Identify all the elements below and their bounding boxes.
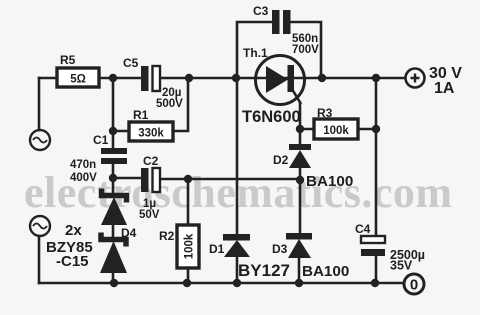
node: rail / zener junction [110,279,118,287]
wire: D2 anode short lead [299,168,302,180]
node: rail / R2 junction [183,279,191,287]
wire: D3 anode lead [298,258,301,283]
svg-text:35V: 35V [390,259,413,273]
wire: link between zener diodes [112,225,115,236]
zener diode (second of 2x BZY85) [46,222,127,273]
svg-text:Th.1: Th.1 [243,46,268,60]
svg-text:R2: R2 [159,229,175,243]
svg-text:C2: C2 [143,154,159,168]
wire: R5 left lead [39,77,57,80]
wire: R2 bottom lead [187,268,190,283]
node: rail / D3 junction [295,279,303,287]
wire: C1 to C2 node [112,163,115,192]
capacitor C3 [253,4,319,56]
wire: C2 left lead [113,177,141,180]
svg-text:D3: D3 [272,242,288,256]
wire: left vertical from main line to C1 [112,78,115,148]
wire: AC input top lead [38,78,41,130]
resistor R2 [159,225,199,268]
wire: C4 bottom lead [375,256,378,283]
svg-text:R3: R3 [317,106,333,120]
diode D3 [272,233,349,280]
node: R1 left junction [109,127,117,135]
svg-text:BA100: BA100 [302,263,349,280]
svg-text:R1: R1 [133,108,149,122]
thyristor Th.1 [242,46,305,126]
svg-text:400V: 400V [70,172,97,184]
svg-text:5Ω: 5Ω [70,74,86,86]
wire: C2 to D2 anode node [162,178,300,181]
capacitor C1 [70,133,127,184]
node: C5/R1 junction [185,74,193,82]
node: rail / D1 junction [233,279,241,287]
terminal +30V [406,65,463,97]
node: C1/C2/zener junction [109,174,117,182]
wire: C5 to thyristor anode and cathode to + terminal [160,77,405,80]
svg-text:BA100: BA100 [306,173,353,190]
svg-text:0: 0 [410,277,418,294]
zener diode D4 [101,189,137,241]
wire: C3 loop right side [289,22,321,78]
svg-text:330k: 330k [138,128,164,140]
resistor R3 [314,106,358,139]
wire: R5 to C5 [99,77,141,80]
svg-text:C1: C1 [93,133,109,147]
wire: R1 left lead [113,130,129,133]
AC source G2 [30,216,50,236]
svg-text:C3: C3 [253,4,269,18]
svg-text:1A: 1A [434,80,455,97]
node: D2/D3/C2 junction [296,176,304,184]
node: R2 top junction [184,175,192,183]
wire: right vertical rail to C4 [375,78,378,236]
AC source G1 [30,130,50,150]
wire: C3 loop left side [237,22,272,78]
svg-text:50V: 50V [139,209,160,221]
resistor R5 [57,53,99,87]
capacitor C4 [355,222,425,273]
node: output junction [372,74,380,82]
svg-text:BY127: BY127 [238,261,290,280]
wire: R2 top lead [187,179,190,225]
diode D1 [209,234,290,280]
svg-text:2x: 2x [65,222,82,239]
svg-text:100k: 100k [183,233,195,259]
node: gate/R3/D2 junction [296,125,304,133]
svg-text:C4: C4 [355,222,371,236]
wire: R3 right lead [358,128,376,131]
diode D2 [273,144,353,190]
svg-text:700V: 700V [292,44,319,56]
wire: AC source 2 bottom lead [38,236,41,283]
svg-text:D1: D1 [209,242,225,256]
svg-text:D2: D2 [273,153,289,167]
terminal 0 [404,274,424,294]
node: thyristor cathode / C3 junction [318,74,326,82]
node: rail / C4 junction [371,279,379,287]
svg-text:100k: 100k [323,125,349,137]
svg-text:R5: R5 [60,53,76,67]
capacitor C2 [139,154,160,221]
node: R3 right junction [372,125,380,133]
wire: gate lead down to node [299,103,302,145]
svg-text:500V: 500V [156,98,183,110]
svg-text:T6N600: T6N600 [242,108,301,126]
wire: D3 cathode lead [299,180,302,233]
wire: zener chain bottom lead [112,273,115,283]
svg-text:470n: 470n [70,159,96,171]
svg-text:C5: C5 [123,56,139,70]
wire: R3 left lead [300,128,314,131]
capacitor C5 [123,56,183,110]
wire: D1 cathode vertical from main line [236,78,239,234]
node: thyristor anode / C3 junction [232,74,240,82]
node: R5/C1 junction [109,74,117,82]
resistor R1 [129,108,173,141]
svg-text:-C15: -C15 [56,253,89,270]
wire: D1 anode lead [236,257,239,283]
wire: R1 right lead up to main line [173,78,188,131]
wire: bottom rail [39,282,404,285]
